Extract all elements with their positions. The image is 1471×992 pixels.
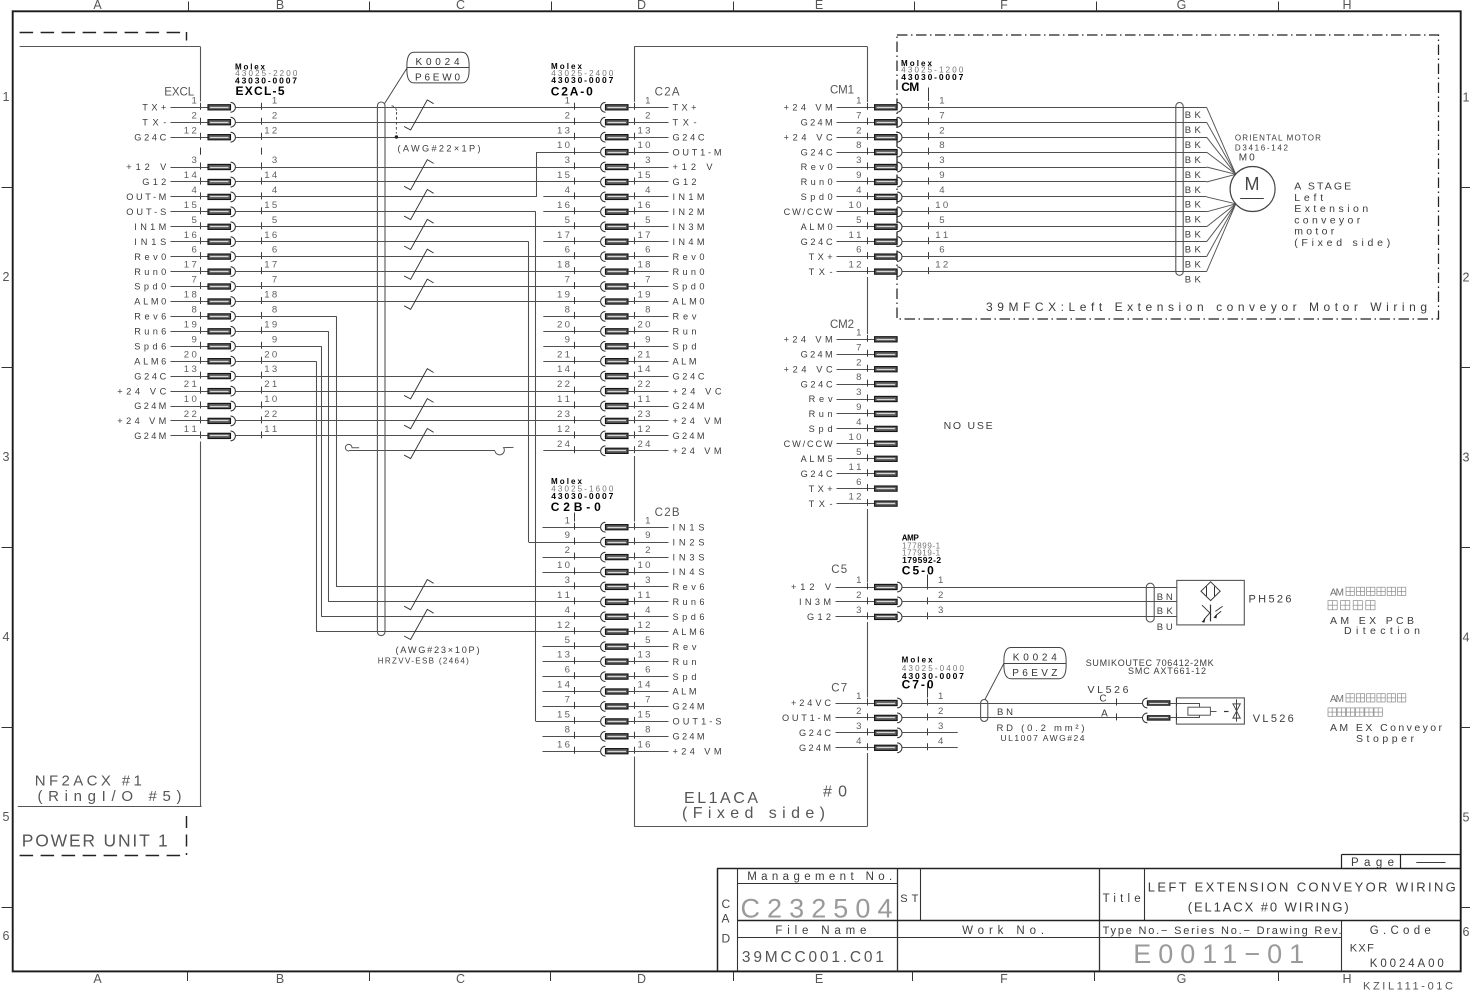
svg-text:7: 7: [565, 275, 570, 286]
svg-text:6: 6: [3, 929, 10, 943]
connector EXCL pin 8 (Rev6): [134, 305, 277, 322]
connector C2A pin 12 (G24M): [557, 424, 705, 441]
wire Spd6 down to C2B: [236, 346, 322, 348]
twisted-pair mark: [404, 399, 434, 429]
svg-text:5: 5: [645, 215, 650, 226]
svg-text:4: 4: [856, 185, 862, 196]
svg-text:1: 1: [645, 515, 650, 526]
title block frame: [717, 868, 1461, 971]
VL526 receptacle contact A: [1143, 713, 1148, 723]
svg-text:2: 2: [272, 110, 277, 121]
svg-text:8: 8: [191, 305, 196, 316]
svg-text:2: 2: [856, 357, 861, 368]
connector C2A pin 19 (ALM0): [557, 290, 705, 307]
svg-text:Rev: Rev: [809, 394, 833, 404]
connector CM2 pin 10 (CW/CCW): [784, 432, 898, 449]
svg-text:G12: G12: [673, 177, 697, 187]
svg-text:H: H: [1342, 972, 1351, 986]
wire: [236, 286, 601, 288]
BK wire color labels: [1185, 110, 1202, 285]
connector CM2 pin 7 (G24M): [801, 342, 898, 359]
svg-text:E: E: [815, 0, 823, 12]
connector C2A pin 1 (TX+): [565, 95, 697, 112]
connector C2A pin 11 (G24M): [557, 394, 705, 411]
connector EXCL pin 6 (Rev0): [134, 245, 277, 262]
connector C2B pin 5 (Rev): [565, 635, 697, 652]
connector C7 pin 3 (G24C): [799, 721, 943, 738]
svg-text:5: 5: [272, 215, 277, 226]
svg-text:2: 2: [565, 545, 570, 556]
svg-text:F: F: [1000, 0, 1008, 12]
PH526 sensor cable capsule: [1146, 583, 1154, 622]
svg-text:2: 2: [938, 706, 943, 717]
wire: [236, 391, 601, 393]
svg-text:6: 6: [939, 245, 944, 256]
connector CM2 pin 5 (ALM5): [801, 447, 898, 464]
svg-text:D: D: [637, 972, 646, 986]
connector CM1 pin 4 (Spd0): [801, 185, 946, 202]
connector CM1 pin 9 (Run0): [801, 170, 945, 187]
wire stub to C2A pin 16: [543, 211, 600, 213]
wire CM to motor cable: [902, 137, 1183, 139]
39MFCX motor wiring dash-dot enclosure: [897, 35, 1439, 319]
svg-text:D: D: [722, 932, 731, 946]
column boundary ticks bottom: [187, 971, 189, 981]
svg-text:C: C: [456, 972, 465, 986]
svg-text:Spd: Spd: [673, 342, 697, 352]
connector EXCL pin 18 (ALM0): [134, 290, 277, 307]
svg-text:TX-: TX-: [142, 117, 166, 127]
connector EXCL pin 13 (G24C): [134, 364, 277, 381]
connector CM2 pin 9 (Run): [809, 402, 898, 419]
svg-text:2: 2: [938, 590, 943, 601]
connector C2B pin 16 (+24 VM): [557, 739, 722, 756]
wire: [236, 420, 601, 422]
C7-0 housing boundary stub: [927, 683, 929, 698]
svg-text:ALM6: ALM6: [673, 627, 705, 637]
svg-text:6: 6: [1463, 925, 1470, 939]
connector CM1 pin 7 (G24M): [801, 110, 945, 127]
connector C2B pin 3 (Rev6): [565, 575, 705, 592]
svg-text:8: 8: [272, 305, 277, 316]
svg-text:8: 8: [645, 724, 650, 735]
twisted-pair mark: [404, 100, 434, 130]
PH526 Japanese note line 2: [1328, 601, 1337, 610]
svg-text:Run: Run: [673, 327, 697, 337]
connector CM2 pin 12 (TX-): [809, 492, 898, 509]
svg-text:C2B: C2B: [655, 507, 680, 519]
svg-text:Extension: Extension: [1294, 203, 1368, 215]
svg-text:A: A: [1101, 709, 1108, 720]
connector EXCL pin 5 (IN1M): [134, 215, 277, 232]
connector C2A pin 18 (Run0): [557, 260, 705, 277]
connector C2A pin 7 (Spd0): [565, 275, 705, 292]
svg-text:G: G: [1177, 0, 1187, 12]
svg-text:1: 1: [3, 90, 10, 104]
svg-text:1: 1: [856, 95, 861, 106]
twisted-pair mark: [404, 609, 434, 639]
connector C2A pin 24 (+24 VM): [557, 439, 722, 456]
wire stub C7 pin3: [902, 732, 958, 734]
twisted-pair mark: [404, 249, 434, 279]
svg-text:PH526: PH526: [1249, 594, 1292, 606]
row boundary ticks left: [2, 187, 13, 189]
svg-text:3: 3: [272, 155, 277, 166]
svg-text:1: 1: [565, 515, 570, 526]
svg-text:6: 6: [645, 245, 650, 256]
wire stub to C2B: [543, 736, 601, 738]
EXCL boundary dash at empty row: [200, 148, 202, 155]
row boundary ticks right: [1461, 187, 1470, 189]
svg-text:ALM0: ALM0: [134, 297, 166, 307]
svg-text:7: 7: [565, 695, 570, 706]
svg-text:ALM: ALM: [673, 687, 697, 697]
wire ALM6 down to C2B: [236, 361, 317, 363]
svg-text:CM: CM: [901, 80, 919, 94]
svg-text:Spd: Spd: [673, 672, 697, 682]
spare pair wire with cut curls: [349, 450, 495, 452]
svg-text:OUT-S: OUT-S: [126, 207, 166, 217]
svg-text:4: 4: [938, 736, 944, 747]
svg-text:1: 1: [856, 327, 861, 338]
connector C2A pin 17 (IN4M): [557, 230, 705, 247]
svg-text:1: 1: [272, 95, 277, 106]
twisted-pair mark: [404, 219, 434, 249]
svg-text:C: C: [1099, 694, 1106, 705]
svg-text:1: 1: [856, 691, 861, 702]
wire CM to motor cable: [902, 152, 1183, 154]
svg-text:24: 24: [557, 439, 571, 450]
connector C2B pin 11 (Run6): [557, 590, 705, 607]
svg-text:1: 1: [856, 575, 861, 586]
wire CM to motor cable: [902, 241, 1183, 243]
connector C2B pin 9 (IN2S): [565, 530, 705, 547]
svg-text:5: 5: [1463, 811, 1470, 825]
svg-text:9: 9: [645, 334, 650, 345]
wire stub to C2A: [543, 316, 600, 318]
connector C2A pin 4 (IN1M): [565, 185, 705, 202]
connector EXCL pin 17 (Run0): [134, 260, 277, 277]
connector C2A pin 22 (+24 VC): [557, 379, 722, 396]
svg-text:9: 9: [856, 402, 861, 413]
connector C2A pin 10 (OUT1-M): [557, 140, 722, 157]
svg-text:H: H: [1342, 0, 1351, 12]
cable spec flag K0024 P6EVZ: [1004, 648, 1066, 679]
svg-text:2: 2: [856, 590, 861, 601]
wire CM to motor cable: [902, 196, 1183, 198]
EL1ACA unit box outline: [634, 47, 867, 827]
svg-text:TX+: TX+: [673, 103, 697, 113]
svg-text:EXCL: EXCL: [164, 87, 195, 99]
svg-text:G24M: G24M: [673, 702, 705, 712]
svg-text:File Name: File Name: [775, 925, 866, 937]
wire CM to motor cable: [902, 271, 1183, 273]
connector CM1 pin 8 (G24C): [801, 140, 945, 157]
svg-text:1: 1: [1463, 91, 1470, 105]
svg-text:TX+: TX+: [809, 252, 833, 262]
svg-text:OUT-M: OUT-M: [126, 192, 166, 202]
NF2ACX box edge dashes at wire rows: [200, 103, 202, 110]
svg-text:C2B-0: C2B-0: [551, 500, 601, 514]
svg-text:3: 3: [191, 155, 196, 166]
wire OUT1-M jog from EXCL OUT-M: [236, 196, 537, 198]
connector EXCL pin 11 (G24M): [134, 424, 277, 441]
svg-text:ORIENTAL MOTOR: ORIENTAL MOTOR: [1235, 133, 1321, 142]
wire stub to C2A pin 17: [543, 241, 600, 243]
wire stub to C2B: [543, 527, 601, 529]
svg-text:9: 9: [272, 334, 277, 345]
svg-text:2: 2: [856, 706, 861, 717]
svg-text:2: 2: [565, 110, 570, 121]
svg-text:6: 6: [565, 245, 570, 256]
svg-text:9: 9: [856, 170, 861, 181]
twisted-pair mark: [404, 279, 434, 309]
connector EXCL pin 10 (G24M): [134, 394, 277, 411]
connector CM2 pin 11 (G24C): [801, 462, 898, 479]
svg-text:5: 5: [856, 447, 861, 458]
connector CM1 pin 6 (TX+): [809, 245, 945, 262]
svg-text:14: 14: [638, 680, 652, 691]
connector C2A pin 2 (TX-): [565, 110, 697, 127]
svg-text:K0024: K0024: [416, 57, 460, 68]
wire CM to motor cable: [902, 181, 1183, 183]
C5-0 housing boundary stub: [927, 575, 929, 584]
wire: [236, 167, 601, 169]
wire C7 pin2 to VL526: [902, 717, 1142, 719]
svg-text:3: 3: [565, 575, 570, 586]
svg-text:POWER UNIT 1: POWER UNIT 1: [22, 831, 168, 851]
svg-text:3: 3: [856, 155, 861, 166]
svg-text:C: C: [722, 897, 731, 911]
svg-text:6: 6: [272, 245, 277, 256]
wire CM to motor cable: [902, 122, 1183, 124]
wire: [236, 122, 601, 124]
svg-text:K0024: K0024: [1013, 652, 1057, 663]
svg-text:9: 9: [645, 530, 650, 541]
connector EXCL pin 12 (G24C): [134, 125, 277, 142]
svg-text:1: 1: [645, 95, 650, 106]
svg-text:KXF: KXF: [1350, 942, 1374, 954]
connector CM2 pin 8 (G24C): [801, 372, 898, 389]
svg-text:6: 6: [645, 665, 650, 676]
wire C7 pin1 to VL526: [902, 703, 1142, 705]
svg-text:B: B: [276, 0, 284, 12]
svg-text:G12: G12: [142, 177, 166, 187]
connector C2A pin 13 (G24C): [557, 125, 705, 142]
svg-text:3: 3: [1463, 451, 1470, 465]
svg-text:C5-0: C5-0: [902, 564, 934, 578]
svg-text:4: 4: [645, 605, 651, 616]
connector CM1 pin 12 (TX-): [809, 260, 949, 277]
wire stub to C2A: [543, 346, 600, 348]
connector EXCL pin 9 (Spd6): [134, 334, 277, 351]
VL526 coil element: [1188, 707, 1211, 715]
svg-text:6: 6: [856, 245, 861, 256]
svg-text:VL526: VL526: [1253, 713, 1294, 725]
connector EXCL pin 7 (Spd0): [134, 275, 277, 292]
svg-text:A: A: [93, 972, 102, 986]
connector C2B pin 14 (ALM): [557, 680, 697, 697]
svg-text:Run: Run: [673, 657, 697, 667]
connector CM1 pin 1 (+24 VM): [784, 95, 945, 112]
svg-text:EXCL-5: EXCL-5: [236, 84, 285, 98]
svg-text:VL526: VL526: [1088, 684, 1129, 696]
wire stub to C2A pin 24: [543, 450, 600, 452]
connector C2A pin 21 (ALM): [557, 349, 697, 366]
svg-text:HRZVV-ESB (2464): HRZVV-ESB (2464): [378, 657, 469, 666]
wire stub to C2B: [543, 751, 601, 753]
svg-text:8: 8: [565, 305, 570, 316]
connector C2A pin 15 (G12): [557, 170, 697, 187]
svg-text:4: 4: [272, 185, 278, 196]
wire IN1S down to C2B: [236, 241, 529, 243]
flag leader line: [985, 663, 1004, 699]
connector C5 pin 3 (G12): [807, 605, 943, 622]
CAD vertical label: [722, 897, 731, 946]
svg-text:3: 3: [645, 155, 650, 166]
svg-text:7: 7: [939, 110, 944, 121]
svg-text:2: 2: [645, 110, 650, 121]
svg-text:3: 3: [856, 605, 861, 616]
wire C5 to PH526: [902, 616, 1177, 618]
svg-text:5: 5: [3, 810, 10, 824]
connector C2A pin 5 (IN3M): [565, 215, 705, 232]
svg-text:D3416-142: D3416-142: [1235, 143, 1289, 152]
connector EXCL pin 20 (ALM6): [134, 349, 277, 366]
wire: [236, 271, 601, 273]
connector EXCL pin 15 (OUT-S): [126, 200, 277, 217]
connector C5 pin 1 (+12 V): [791, 575, 943, 592]
svg-text:3: 3: [856, 721, 861, 732]
svg-text:4: 4: [939, 185, 945, 196]
column boundary ticks top: [188, 2, 190, 12]
motor M0 circle symbol: [1230, 167, 1275, 212]
svg-text:1: 1: [938, 575, 943, 586]
VL526 Japanese note line 2: [1328, 708, 1336, 716]
twisted-pair mark: [404, 580, 434, 610]
connector C2B pin 12 (ALM6): [557, 620, 705, 637]
svg-text:5: 5: [939, 215, 944, 226]
svg-text:TX-: TX-: [809, 499, 833, 509]
svg-text:3: 3: [938, 721, 943, 732]
svg-text:C7: C7: [831, 683, 847, 695]
svg-text:C7-0: C7-0: [902, 678, 934, 692]
svg-text:ALM0: ALM0: [801, 222, 833, 232]
connector EXCL pin 4 (OUT-M): [126, 185, 278, 202]
svg-text:1: 1: [938, 691, 943, 702]
wire: [236, 435, 601, 437]
svg-text:6: 6: [856, 477, 861, 488]
svg-text:5: 5: [565, 215, 570, 226]
motor fan-in wires: [1183, 107, 1236, 271]
svg-text:5: 5: [191, 215, 196, 226]
svg-text:3: 3: [645, 575, 650, 586]
connector CM2 pin 4 (Spd): [809, 417, 898, 434]
svg-text:TX+: TX+: [142, 103, 166, 113]
wire CM to motor cable: [902, 226, 1183, 228]
twisted-pair mark: [404, 190, 434, 220]
svg-text:A: A: [722, 912, 730, 926]
svg-text:B: B: [276, 972, 284, 986]
svg-text:G24M: G24M: [801, 349, 833, 359]
VL526 receptacle contact C: [1143, 698, 1148, 708]
svg-text:G: G: [1177, 972, 1187, 986]
svg-text:G24M: G24M: [799, 743, 831, 753]
connector CM2 pin 3 (Rev): [809, 387, 898, 404]
svg-text:8: 8: [565, 724, 570, 735]
wire stub to C2A: [543, 361, 600, 363]
svg-text:G24M: G24M: [673, 431, 705, 441]
NF2ACX RingI/O unit box: [20, 46, 201, 48]
svg-text:G24M: G24M: [673, 732, 705, 742]
wire C5 to PH526: [902, 601, 1177, 603]
connector EXCL pin 16 (IN1S): [134, 230, 277, 247]
svg-text:CM1: CM1: [830, 85, 854, 97]
svg-text:KZIL111-01C: KZIL111-01C: [1363, 981, 1453, 992]
svg-text:4: 4: [191, 185, 197, 196]
svg-text:1: 1: [939, 95, 944, 106]
svg-text:2: 2: [939, 125, 944, 136]
connector C2A pin 20 (Run): [557, 319, 697, 336]
connector C2B pin 13 (Run): [557, 650, 697, 667]
svg-text:14: 14: [557, 364, 571, 375]
connector CM2 pin 2 (+24 VC): [784, 357, 898, 374]
AWG#22 pair callout: [392, 106, 397, 112]
svg-text:4: 4: [856, 417, 862, 428]
svg-text:F: F: [1000, 972, 1008, 986]
svg-text:ALM: ALM: [673, 356, 697, 366]
wire OUT-S down to OUT1-S: [236, 211, 536, 213]
svg-text:TX+: TX+: [809, 484, 833, 494]
connector CM2 pin 1 (+24 VM): [784, 327, 898, 344]
connector C2A pin 16 (IN2M): [557, 200, 705, 217]
wire: [236, 301, 601, 303]
connector C2B pin 10 (IN4S): [557, 560, 705, 577]
svg-text:7: 7: [272, 275, 277, 286]
svg-text:TX-: TX-: [809, 267, 833, 277]
svg-text:4: 4: [856, 736, 862, 747]
connector C7 pin 1 (+24VC): [791, 691, 943, 708]
POWER UNIT 1 dashed enclosure top: [20, 32, 186, 34]
svg-text:7: 7: [645, 275, 650, 286]
svg-text:5: 5: [856, 215, 861, 226]
connector C2B pin 7 (G24M): [565, 695, 705, 712]
svg-text:3: 3: [938, 605, 943, 616]
svg-text:3: 3: [856, 387, 861, 398]
connector C2A pin 14 (G24C): [557, 364, 705, 381]
connector C5 pin 2 (IN3M): [799, 590, 943, 607]
wire: [236, 226, 601, 228]
svg-text:14: 14: [264, 170, 278, 181]
svg-text:4: 4: [645, 185, 651, 196]
svg-text:6: 6: [565, 665, 570, 676]
svg-text:9: 9: [191, 334, 196, 345]
connector EXCL pin 21 (+24 VC): [117, 379, 277, 396]
svg-text:2: 2: [3, 270, 10, 284]
svg-text:2: 2: [191, 110, 196, 121]
motor cable capsule: [1176, 103, 1183, 276]
wire CM to motor cable: [902, 256, 1183, 258]
svg-text:CM2: CM2: [830, 319, 854, 331]
twisted-pair mark: [404, 369, 434, 399]
wire C5 to PH526: [902, 587, 1177, 589]
connector C2B pin 8 (G24M): [565, 724, 705, 741]
wire: [236, 406, 601, 408]
svg-text:4: 4: [1463, 631, 1470, 645]
svg-text:C2A-0: C2A-0: [551, 84, 593, 98]
svg-text:8: 8: [645, 305, 650, 316]
svg-text:G24M: G24M: [134, 401, 166, 411]
